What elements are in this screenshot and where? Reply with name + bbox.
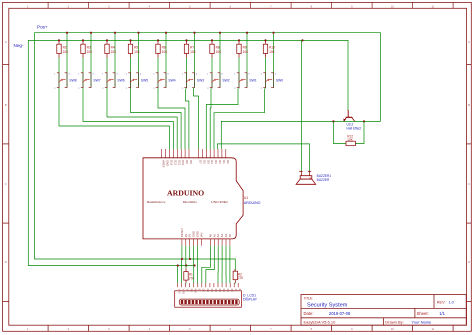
wire (194, 33, 196, 88)
svg-text:Duemilanove: Duemilanove (147, 200, 166, 204)
svg-text:GND: GND (166, 160, 170, 166)
svg-text:ARDUINO: ARDUINO (167, 189, 204, 198)
svg-text:10K: 10K (87, 50, 94, 54)
svg-text:UNO R3R2: UNO R3R2 (211, 200, 228, 204)
wire GND to Neg rail (193, 246, 195, 266)
resistor R5 10K (128, 40, 140, 57)
junction (219, 32, 221, 34)
svg-text:10K: 10K (243, 50, 250, 54)
wire to R1 (185, 266, 187, 269)
junction (157, 39, 159, 41)
net label Pos+ (37, 25, 48, 30)
svg-text:D9: D9 (185, 160, 189, 164)
svg-text:D11: D11 (177, 160, 181, 165)
wire 5V to Pos rail (189, 246, 191, 259)
svg-text:SW4: SW4 (168, 79, 175, 83)
resistor R9 10K (237, 40, 249, 57)
svg-text:VIN: VIN (199, 233, 203, 238)
junction (185, 264, 187, 266)
junction (129, 39, 131, 41)
wire (246, 33, 248, 88)
junction (264, 39, 266, 41)
junction (363, 120, 365, 122)
svg-text:TITLE:: TITLE: (304, 297, 314, 301)
junction (332, 120, 334, 122)
wire GND2 to LCD E column (197, 246, 199, 283)
switch SW1 (234, 73, 257, 90)
svg-text:SW3: SW3 (197, 79, 204, 83)
svg-text:2018-07-08: 2018-07-08 (329, 311, 351, 316)
svg-text:BUZZER1: BUZZER1 (317, 174, 332, 178)
wire Pos+ rail (35, 33, 381, 272)
wire buzzer drive from D2 (217, 144, 309, 171)
wire (219, 33, 221, 88)
switch SW6 (102, 73, 125, 90)
svg-text:B: B (468, 103, 470, 107)
svg-text:SW8: SW8 (69, 79, 76, 83)
resistor R6 10K (156, 40, 168, 57)
svg-text:SW1: SW1 (249, 79, 256, 83)
junction (90, 32, 92, 34)
svg-text:1.0: 1.0 (449, 300, 454, 304)
junction (301, 39, 303, 41)
junction (106, 39, 108, 41)
wire 3V down (185, 246, 187, 266)
svg-text:Pos+: Pos+ (37, 25, 48, 30)
wire (131, 89, 182, 150)
svg-text:Your Name: Your Name (411, 319, 432, 324)
svg-text:RW: RW (194, 289, 197, 294)
junction (238, 39, 240, 41)
wire (186, 58, 188, 89)
wire hall-effect signal to D1 (221, 121, 380, 149)
svg-text:SW2: SW2 (222, 79, 229, 83)
resistor R8 10K (210, 40, 222, 57)
svg-text:U1: U1 (244, 196, 248, 200)
wire (58, 58, 60, 89)
wire (114, 33, 116, 88)
svg-text:10K: 10K (162, 50, 169, 54)
svg-text:Security System: Security System (307, 303, 348, 309)
svg-text:AREF: AREF (162, 160, 166, 168)
wire R12 loop right (355, 121, 364, 143)
svg-text:D2: D2 (218, 160, 222, 164)
svg-text:BUZZER: BUZZER (317, 178, 330, 182)
junction (246, 32, 248, 34)
wire R2 to LCD A (234, 282, 235, 285)
wire A0 to LCD D0 (202, 246, 211, 283)
hall-effect sensor U3.2 (343, 110, 361, 130)
wire (158, 89, 185, 150)
wire (265, 58, 267, 89)
wire (59, 89, 170, 150)
wire (83, 89, 173, 150)
svg-text:Hall Effect: Hall Effect (347, 126, 362, 130)
svg-text:A5: A5 (228, 233, 232, 237)
wire (90, 33, 92, 88)
switch SW4 (153, 73, 176, 90)
wire (211, 58, 213, 89)
wire LCD VSS to Neg rail (177, 266, 179, 284)
junction (211, 39, 213, 41)
resistor R2 10K (57, 40, 69, 57)
wire (82, 58, 84, 89)
wire (273, 33, 275, 88)
buzzer BUZZER1 (296, 171, 331, 184)
svg-text:D7: D7 (199, 160, 203, 164)
junction (181, 258, 183, 260)
net label Neg- (14, 43, 24, 48)
junction (177, 264, 179, 266)
switch SW7 (78, 73, 101, 90)
wire LCD VDD to Pos rail (181, 259, 183, 283)
svg-text:A: A (468, 40, 470, 44)
switch SW5 (126, 73, 149, 90)
svg-text:VDD: VDD (182, 289, 185, 294)
svg-text:Drawn By:: Drawn By: (385, 319, 403, 324)
svg-text:D10: D10 (181, 160, 185, 166)
svg-text:10K: 10K (216, 50, 223, 54)
svg-text:D12: D12 (173, 160, 177, 166)
wire LCD RW to Neg rail (193, 266, 195, 284)
resistor R4 10K (105, 40, 117, 57)
svg-text:10K: 10K (347, 138, 354, 142)
switch SW3 (182, 73, 205, 90)
arduino U1 (143, 149, 261, 246)
junction (189, 258, 191, 260)
wire A3 to LCD D5 (221, 246, 223, 283)
svg-text:1/1: 1/1 (439, 311, 445, 316)
svg-text:A: A (5, 40, 7, 44)
svg-text:SW6: SW6 (117, 79, 124, 83)
svg-text:D1: D1 (222, 160, 226, 164)
svg-text:D: D (5, 260, 7, 264)
wire RESET to Pos rail (181, 246, 183, 259)
wire (138, 33, 140, 88)
resistor R10 10K (263, 40, 275, 57)
svg-text:SW5: SW5 (141, 79, 148, 83)
wire A5 to LCD D7 (229, 246, 231, 283)
junction (185, 39, 187, 41)
svg-text:SW7: SW7 (93, 79, 100, 83)
svg-text:Neg-: Neg- (14, 43, 24, 48)
svg-text:D4: D4 (210, 160, 214, 164)
svg-text:D13: D13 (170, 160, 174, 166)
wire (107, 89, 177, 150)
LCD module D_LCD1 (175, 283, 258, 307)
wire A4 to LCD D6 (225, 246, 227, 283)
wire (130, 58, 132, 89)
svg-text:C: C (468, 182, 470, 186)
svg-text:Date:: Date: (304, 311, 314, 316)
wire (66, 33, 68, 88)
junction (58, 39, 60, 41)
switch SW2 (207, 73, 230, 90)
wire R1 to LCD V0 (185, 282, 187, 285)
wire R12 loop left (333, 121, 346, 143)
svg-text:EasyEDA V5.6.10: EasyEDA V5.6.10 (304, 319, 337, 324)
svg-text:10K: 10K (63, 50, 70, 54)
switch SW8 (54, 73, 77, 90)
wire (209, 89, 212, 150)
svg-text:REV:: REV: (437, 300, 446, 304)
svg-text:DISPLAY: DISPLAY (243, 298, 258, 302)
svg-text:D6: D6 (202, 160, 206, 164)
junction (272, 32, 274, 34)
wire (214, 89, 265, 150)
resistor R1 27K (184, 269, 195, 283)
svg-text:10K: 10K (269, 50, 276, 54)
svg-text:RS: RS (190, 289, 193, 293)
svg-text:B: B (5, 103, 7, 107)
svg-text:10K: 10K (111, 50, 118, 54)
junction (193, 32, 195, 34)
svg-text:Diecimila: Diecimila (183, 200, 197, 204)
wire (194, 88, 199, 149)
svg-text:D: D (468, 260, 470, 264)
svg-text:VSS: VSS (177, 289, 180, 294)
svg-text:ARDUINO: ARDUINO (244, 201, 261, 205)
svg-text:D0: D0 (226, 160, 230, 164)
svg-text:Sheet:: Sheet: (417, 311, 429, 316)
switch SW0 (261, 73, 284, 90)
junction (193, 264, 195, 266)
svg-text:D5: D5 (206, 160, 210, 164)
wire (106, 58, 108, 89)
svg-text:D8: D8 (189, 160, 193, 164)
wire (165, 33, 167, 88)
junction (165, 32, 167, 34)
resistor R3 10K (81, 40, 93, 57)
wire Neg- rail (28, 40, 348, 265)
svg-text:C: C (5, 182, 7, 186)
svg-text:27K: 27K (238, 276, 245, 280)
title block (301, 295, 466, 326)
resistor R12 10K (346, 134, 355, 145)
resistor R2 27K (233, 269, 244, 283)
svg-text:10K: 10K (190, 50, 197, 54)
junction (114, 32, 116, 34)
wire A2 to LCD D4 (217, 246, 219, 283)
wire (186, 89, 189, 150)
svg-text:D3: D3 (214, 160, 218, 164)
svg-text:SW0: SW0 (276, 79, 283, 83)
svg-text:10K: 10K (134, 50, 141, 54)
wire buzzer return to Neg- (300, 40, 302, 171)
wire (157, 58, 159, 89)
junction (82, 39, 84, 41)
svg-text:27K: 27K (189, 276, 196, 280)
junction (137, 32, 139, 34)
wire (206, 89, 238, 150)
wire (238, 58, 240, 89)
resistor R7 10K (184, 40, 196, 57)
wire A1 to LCD D1 (206, 246, 214, 283)
junction (66, 32, 68, 34)
